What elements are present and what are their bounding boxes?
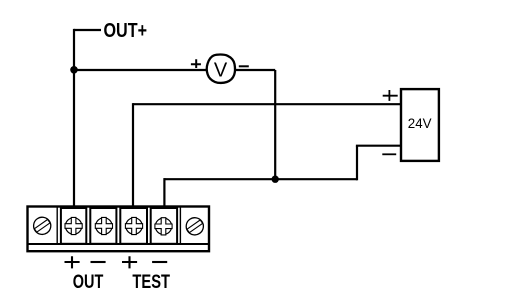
terminal block TB1 outer body bbox=[28, 207, 210, 252]
battery plus sign bbox=[383, 90, 398, 101]
screw terminal 6 (slotted) bbox=[183, 214, 207, 238]
screw terminal 5 (cross) bbox=[155, 218, 172, 235]
wire step vertical to 24V minus bbox=[356, 146, 358, 181]
label minus (TEST polarity) bbox=[152, 261, 167, 263]
terminal block divider left (cell 1 right edge) bbox=[56, 207, 58, 244]
terminal cell 4 box bbox=[120, 208, 147, 244]
screw terminal 1 (slotted) bbox=[30, 214, 54, 238]
screw terminal 3 (cross) bbox=[95, 217, 112, 234]
voltmeter minus sign bbox=[239, 65, 249, 67]
wire TEST+ vertical into terminal 4 bbox=[132, 103, 134, 207]
battery 24V box bbox=[401, 89, 439, 161]
wire TEST- horizontal bbox=[164, 178, 357, 180]
svg-text:24V: 24V bbox=[408, 116, 433, 131]
wire 24V plus to TEST+ horizontal bbox=[133, 103, 402, 105]
terminal cell 3 box bbox=[90, 208, 116, 244]
junction node OUT+ bbox=[70, 66, 78, 74]
wire V+ horizontal (OUT+ node to voltmeter left, continues to V- corner under meter) bbox=[74, 69, 275, 71]
wire into 24V minus terminal bbox=[356, 145, 402, 147]
terminal block divider right (cell 6 left edge) bbox=[179, 207, 181, 244]
label plus (OUT polarity) bbox=[65, 256, 80, 268]
svg-text:V: V bbox=[214, 60, 228, 82]
wire V- vertical from voltmeter right down to TEST- net bbox=[274, 70, 276, 179]
svg-text:OUT+: OUT+ bbox=[104, 20, 148, 42]
svg-text:OUT: OUT bbox=[73, 272, 104, 293]
label minus (OUT polarity) bbox=[91, 261, 106, 263]
wire TEST- vertical into terminal 5 bbox=[163, 178, 165, 207]
label plus (TEST polarity) bbox=[122, 256, 137, 268]
wire OUT+ label stub bbox=[74, 29, 101, 31]
terminal cell 2 box bbox=[61, 208, 86, 244]
junction node TEST- / V- bbox=[272, 176, 279, 183]
voltmeter plus sign bbox=[191, 59, 201, 68]
terminal block bottom lip line bbox=[28, 243, 208, 245]
wire OUT+ vertical down to terminal 2 bbox=[73, 29, 75, 208]
terminal cell 5 box bbox=[151, 208, 177, 244]
screw terminal 4 (cross) bbox=[125, 217, 142, 234]
voltmeter V1 body bbox=[207, 55, 235, 83]
battery minus sign bbox=[382, 153, 396, 155]
screw terminal 2 (cross) bbox=[65, 217, 82, 234]
svg-text:TEST: TEST bbox=[132, 272, 170, 293]
